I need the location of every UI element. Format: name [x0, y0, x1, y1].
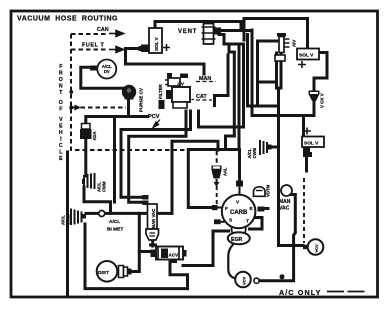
hose: VRV output 1: [218, 29, 252, 32]
junction dot on dashed line: [69, 106, 73, 110]
svg-text:ADA: ADA: [92, 131, 97, 140]
svg-text:V: V: [59, 117, 63, 123]
hose: bundle line x247.5 to right: [248, 35, 279, 107]
MAN VAC gauge (circle with label): [279, 185, 292, 212]
hose: SOL V 2 right loop to check valve: [314, 53, 327, 91]
svg-text:O: O: [59, 77, 63, 83]
solenoid valve SOL V 3 (right middle box): [302, 128, 324, 158]
vacuum restrictor valve VRV (top center): [202, 21, 216, 44]
hose: A/C run to VCA circle: [279, 244, 304, 247]
hose: branch down to SOL V 3: [302, 116, 305, 137]
svg-text:MAN: MAN: [279, 199, 291, 205]
svg-text:SOL V: SOL V: [304, 140, 319, 146]
svg-text:VACUUM HOSE ROUTING: VACUUM HOSE ROUTING: [17, 16, 118, 23]
hose: bundle line x234: [233, 52, 236, 136]
svg-text:CAT: CAT: [196, 94, 207, 100]
svg-text:AAL: AAL: [223, 167, 228, 176]
hose: Hy4 run y149 to carb F drop: [188, 150, 239, 208]
carb V nipple: [236, 181, 243, 187]
ACV assembly (above DIST, black cluster): [149, 244, 187, 264]
hose: double run lower (Hy2): [129, 111, 186, 202]
hose: branch to horn3: [272, 146, 279, 149]
svg-text:T: T: [59, 90, 63, 96]
svg-text:ACV: ACV: [169, 253, 180, 258]
svg-text:I: I: [60, 137, 62, 143]
carb neck: [232, 228, 246, 235]
svg-text:FUEL T: FUEL T: [82, 43, 104, 49]
hose: top run to SOL V 2: [244, 19, 308, 49]
dashed boundary line (front of vehicle): [71, 34, 217, 165]
svg-text:BI MET: BI MET: [107, 227, 123, 233]
hose: SOL V 1 top feed along top to right column: [155, 22, 241, 31]
VOTM cap component: [254, 184, 271, 197]
hose: ACV bottom to bottom run: [170, 262, 188, 289]
svg-text:F: F: [59, 64, 62, 70]
svg-text:VOTM: VOTM: [266, 184, 271, 197]
hose: staircase from bundle to y149 run: [226, 136, 235, 150]
svg-text:CV: CV: [178, 82, 185, 87]
svg-text:AIV: AIV: [292, 40, 297, 47]
svg-text:DV: DV: [104, 69, 110, 74]
hose: engine to bundle run y127: [199, 111, 235, 127]
svg-text:SOL V: SOL V: [154, 36, 159, 51]
hose: left long vertical to bottom border: [66, 152, 69, 296]
hose: vertical x172 down to BI MET run: [171, 141, 174, 213]
hose: horn1 output loop: [84, 187, 111, 213]
svg-text:A/C ONLY: A/C ONLY: [279, 288, 321, 297]
EGR valve (oval under carb): [228, 232, 250, 278]
hose: horn2 output to junction circle: [86, 212, 99, 215]
hoses layer: [68, 19, 328, 297]
svg-text:O: O: [59, 100, 63, 106]
air cleaner diverter valve A/CL DV (circle): [90, 60, 116, 79]
svg-text:VCV: VCV: [242, 276, 247, 285]
hose: capsule bottom to ACV: [151, 240, 154, 246]
svg-text:F: F: [225, 206, 228, 212]
svg-text:VCV: VCV: [314, 244, 319, 253]
hose: riser x257.5 with branch to AIV merged line: [258, 41, 277, 106]
valve nipple on VRV output: [214, 28, 222, 35]
VCS circle (bottom, left): [235, 272, 259, 288]
svg-text:CWM: CWM: [66, 214, 71, 225]
carb E nipple: [258, 207, 265, 212]
hose: MAN VAC capsule nipple stubs: [143, 197, 147, 202]
hose: bundle line x239: [238, 44, 241, 149]
svg-text:PURGE CV: PURGE CV: [139, 87, 144, 112]
svg-text:PCV: PCV: [148, 114, 160, 120]
air cleaner CWM horn 1 (upper left): [82, 173, 107, 192]
hose: EGR curved line down to VCS circle: [228, 244, 236, 279]
VCA circle (right, A/C): [303, 239, 323, 255]
hose: double run upper (Hy1): [121, 111, 191, 197]
hose: A/CL DV loop to purge valve: [81, 67, 123, 88]
hose: carb V drop: [238, 150, 241, 182]
hose: check valve bottom stub: [313, 100, 316, 116]
ADA component (small box on line): [80, 124, 97, 141]
air injection valve AIV (spool): [275, 33, 297, 61]
distributor DIST (circle with connector): [97, 261, 132, 282]
svg-text:CWM: CWM: [252, 148, 257, 159]
hose: ACV right to carb S: [183, 231, 229, 266]
hose: VRV output staircase: [219, 35, 234, 53]
hose: engine to CAT corner: [215, 55, 229, 106]
purge control valve PURGE CV (dark circle): [122, 85, 144, 112]
svg-text:A/CL: A/CL: [109, 219, 120, 225]
hose: AIV merged line down to A/C run: [277, 88, 280, 246]
hose: bundle line x243.5: [234, 44, 243, 127]
hose: man vac gauge stem: [291, 195, 296, 246]
svg-text:EGR: EGR: [231, 237, 242, 243]
engine / filter cluster: [158, 73, 190, 109]
hose: AIV twin stubs below connector: [277, 53, 282, 88]
dashed hose: AAL funnel down to carb F: [216, 179, 218, 204]
svg-text:H: H: [59, 130, 63, 136]
hose: horn2 bottom long run to bottom right: [85, 224, 188, 289]
svg-text:VAC: VAC: [279, 206, 290, 212]
svg-text:CAN: CAN: [97, 27, 109, 33]
hose: PCV horizontal with ADA drop: [86, 117, 147, 177]
air cleaner CWM horn 2 (lower left): [61, 209, 87, 226]
hose: A/CL BI MET run y213.4: [105, 212, 173, 215]
hose: SOL V 3 bottom stub: [305, 157, 308, 171]
dashed hose: SOL V 3 to VCA circle: [303, 178, 305, 243]
svg-text:MAN VAC: MAN VAC: [151, 209, 156, 229]
hose: SOL V 1 left nipple loop down and right: [126, 49, 205, 75]
carb F nipple: [212, 205, 218, 210]
hose: down to VCS run: [259, 246, 294, 281]
hose: Hy3 run y141 with hook: [172, 141, 218, 150]
svg-text:VENT: VENT: [178, 29, 197, 35]
hose: purge valve bottom stub: [127, 99, 130, 117]
svg-text:N: N: [59, 84, 63, 90]
svg-text:L: L: [59, 150, 63, 156]
svg-text:C: C: [59, 143, 63, 149]
label FRONT OF VEHICLE (vertical stacked): [59, 64, 63, 162]
svg-text:T: T: [246, 218, 249, 224]
hose: branch down to DIST/ACV: [139, 213, 151, 251]
solenoid valve SOL V 1 (left, vertical box): [139, 28, 171, 53]
svg-text:CWM: CWM: [102, 181, 107, 192]
svg-text:SOL V: SOL V: [299, 53, 314, 59]
MAN VAC capsule (inline component): [143, 195, 159, 240]
solenoid valve SOL V 2 (top right box): [297, 49, 319, 69]
svg-text:FILTER: FILTER: [158, 83, 163, 99]
svg-text:DIST: DIST: [98, 270, 109, 276]
hose: carb E stub: [262, 207, 268, 210]
junction dot on bottom run: [280, 274, 285, 279]
hose: staircase crossbar feeding bundle: [229, 43, 244, 46]
hose: vertical drop x=114: [113, 117, 116, 203]
hose: bundle line x252: [251, 30, 254, 116]
svg-text:F: F: [59, 107, 62, 113]
carb S nipple: [214, 219, 221, 224]
hose: AIV feed from riser: [258, 40, 278, 43]
air cleaner CWM horn 3 (right of bundle): [247, 140, 272, 159]
svg-text:E: E: [59, 124, 63, 130]
vacuum check valve V CK V (funnel): [309, 91, 325, 109]
AAL funnel with arrow (above carb F): [212, 166, 228, 188]
svg-text:E: E: [59, 156, 63, 162]
hose: carb T loop: [250, 218, 263, 230]
components layer: [61, 21, 325, 287]
hose: DIST stub up: [131, 252, 139, 272]
svg-text:CARB: CARB: [230, 210, 248, 216]
junction connector circle (BI MET line): [99, 211, 105, 217]
hose: check valve run y115.5: [252, 114, 314, 117]
svg-text:R: R: [59, 71, 63, 77]
carburetor CARB (big circle): [212, 181, 264, 235]
svg-text:V CK V: V CK V: [320, 93, 325, 108]
